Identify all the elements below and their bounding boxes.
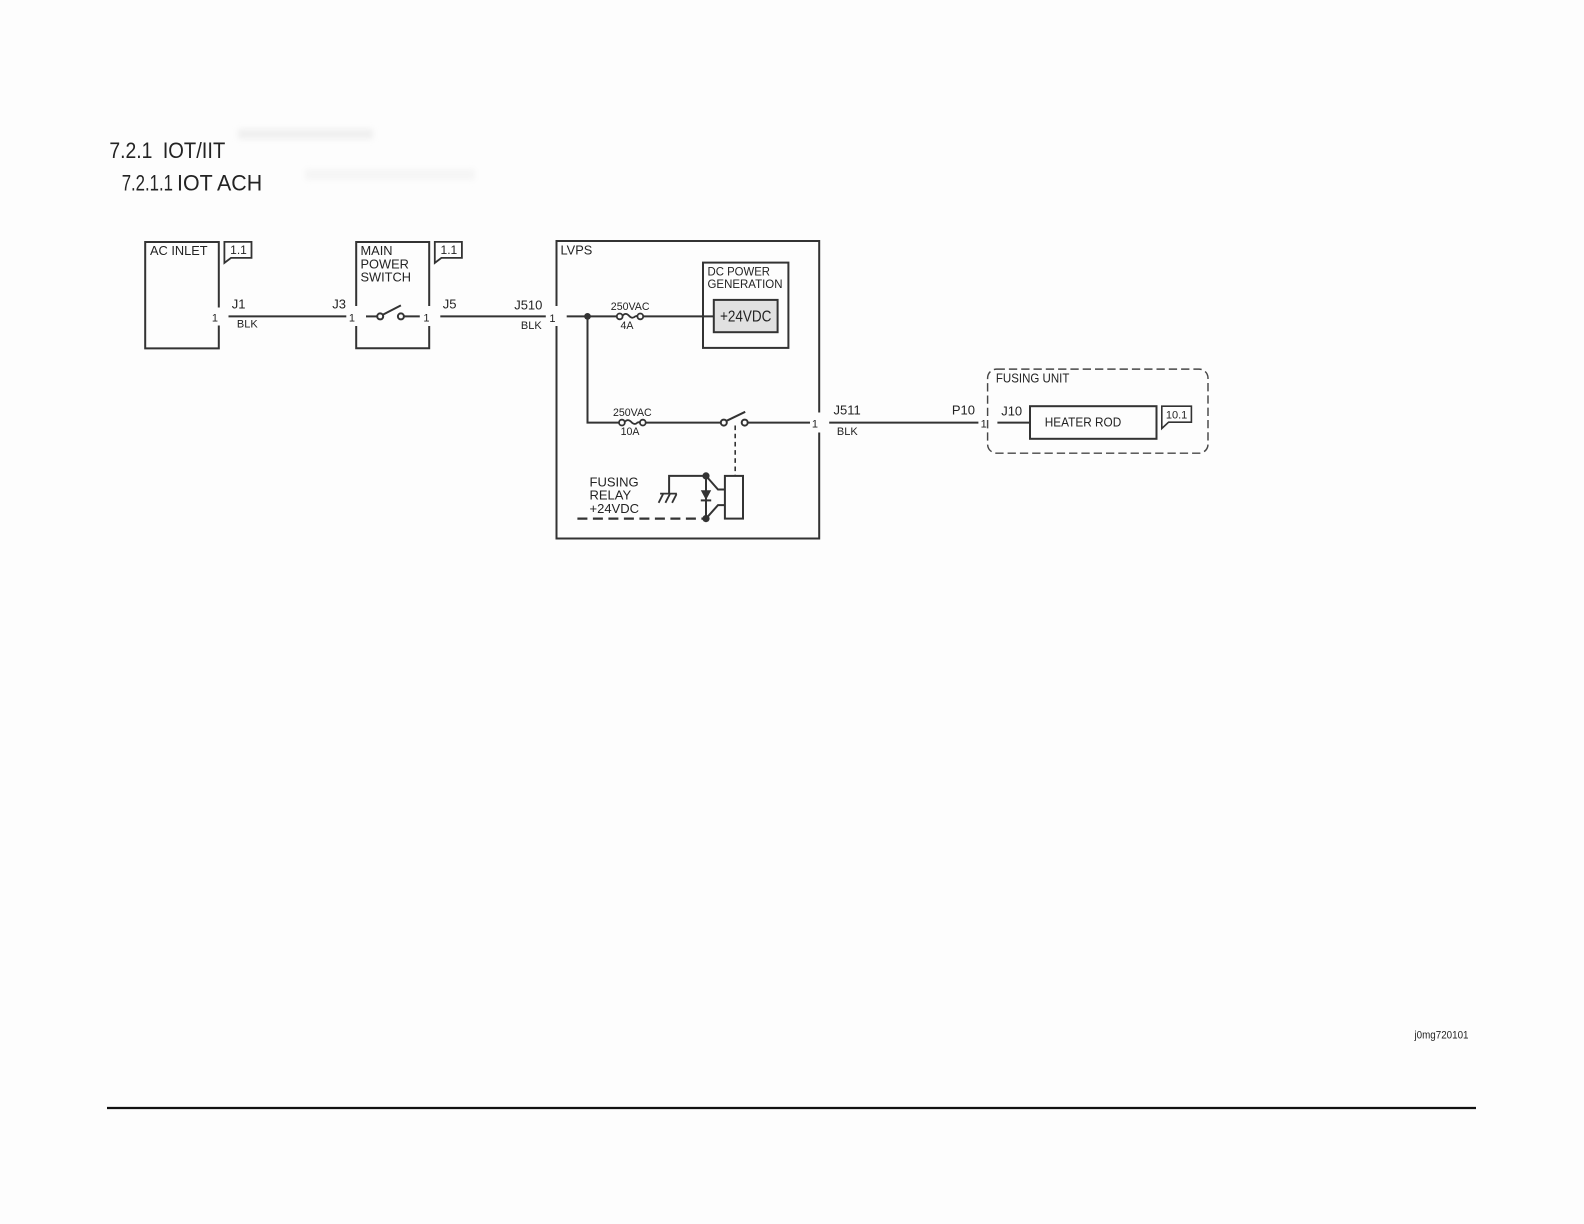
svg-text:1.1: 1.1 — [230, 243, 247, 257]
svg-text:BLK: BLK — [237, 319, 258, 331]
fuse F2 10A — [619, 420, 646, 426]
relay coil box K1 — [725, 476, 743, 519]
svg-text:AC INLET: AC INLET — [150, 243, 208, 258]
dashed +24VDC return wire — [577, 517, 706, 519]
wire junction down to fuse F2 — [588, 316, 620, 422]
svg-text:10.1: 10.1 — [1166, 409, 1187, 421]
tag 1.1 (MAIN POWER SWITCH) — [435, 242, 462, 263]
wire J5-J510 — [440, 315, 546, 317]
svg-text:HEATER ROD: HEATER ROD — [1045, 415, 1122, 430]
chassis ground — [659, 494, 677, 503]
svg-text:+24VDC: +24VDC — [720, 308, 772, 325]
svg-text:J511: J511 — [834, 403, 861, 418]
wire F2 to relay contact — [646, 422, 721, 424]
tag 10.1 (HEATER ROD) — [1162, 406, 1192, 428]
fusing relay: top wire — [669, 476, 706, 494]
wire J1-J3 — [229, 315, 347, 317]
svg-text:j0mg720101: j0mg720101 — [1414, 1029, 1469, 1041]
wire J511-P10 — [829, 422, 978, 424]
svg-text:SWITCH: SWITCH — [361, 270, 411, 285]
svg-text:250VAC: 250VAC — [613, 407, 652, 419]
svg-text:GENERATION: GENERATION — [708, 277, 783, 291]
diode D1 — [701, 476, 711, 519]
node junction — [584, 313, 591, 320]
svg-text:7.2.1IOT/IIT: 7.2.1IOT/IIT — [109, 138, 225, 163]
scan smudge top — [238, 129, 475, 180]
svg-text:LVPS: LVPS — [561, 243, 593, 258]
svg-text:1: 1 — [549, 313, 555, 325]
svg-text:1: 1 — [812, 419, 818, 431]
svg-text:10A: 10A — [621, 426, 641, 438]
svg-text:4A: 4A — [621, 320, 635, 332]
svg-text:P10: P10 — [952, 403, 975, 418]
svg-text:1: 1 — [981, 419, 987, 431]
box AC INLET — [145, 242, 219, 348]
svg-text:J3: J3 — [332, 297, 346, 312]
fuse F1 4A — [617, 314, 643, 320]
node relay bottom — [702, 515, 709, 522]
svg-text:1: 1 — [212, 312, 218, 324]
tag 1.1 (AC INLET) — [224, 242, 251, 263]
box DC POWER GENERATION — [703, 263, 788, 348]
relay coil connections — [706, 476, 725, 519]
svg-text:250VAC: 250VAC — [611, 301, 650, 313]
svg-text:1: 1 — [349, 312, 355, 324]
box +24VDC — [714, 300, 778, 332]
svg-text:J510: J510 — [514, 297, 542, 312]
svg-text:J10: J10 — [1001, 404, 1022, 419]
node relay top — [702, 472, 709, 479]
box FUSING UNIT (dashed) — [988, 369, 1208, 453]
dashed actuate link — [734, 426, 736, 476]
wire LVPS in to junction and to fuse F1 — [567, 315, 617, 317]
bottom rule — [107, 1107, 1476, 1109]
svg-text:FUSING UNIT: FUSING UNIT — [996, 371, 1070, 386]
svg-text:+24VDC: +24VDC — [590, 501, 640, 516]
svg-text:7.2.1.1IOT ACH: 7.2.1.1IOT ACH — [122, 171, 263, 196]
svg-text:1: 1 — [423, 312, 429, 324]
wire J10 to HEATER ROD — [997, 422, 1030, 424]
svg-text:1.1: 1.1 — [441, 243, 458, 257]
box HEATER ROD — [1030, 406, 1157, 439]
box MAIN POWER SWITCH — [356, 242, 429, 348]
switch S1 (main power switch) — [366, 305, 420, 319]
svg-text:J1: J1 — [232, 297, 246, 312]
relay contact switch (on wire2) — [721, 412, 810, 426]
svg-text:BLK: BLK — [521, 320, 542, 332]
svg-text:J5: J5 — [443, 297, 457, 312]
wire F1 to +24VDC box — [643, 315, 714, 317]
svg-text:BLK: BLK — [837, 426, 858, 438]
box LVPS — [557, 241, 820, 539]
